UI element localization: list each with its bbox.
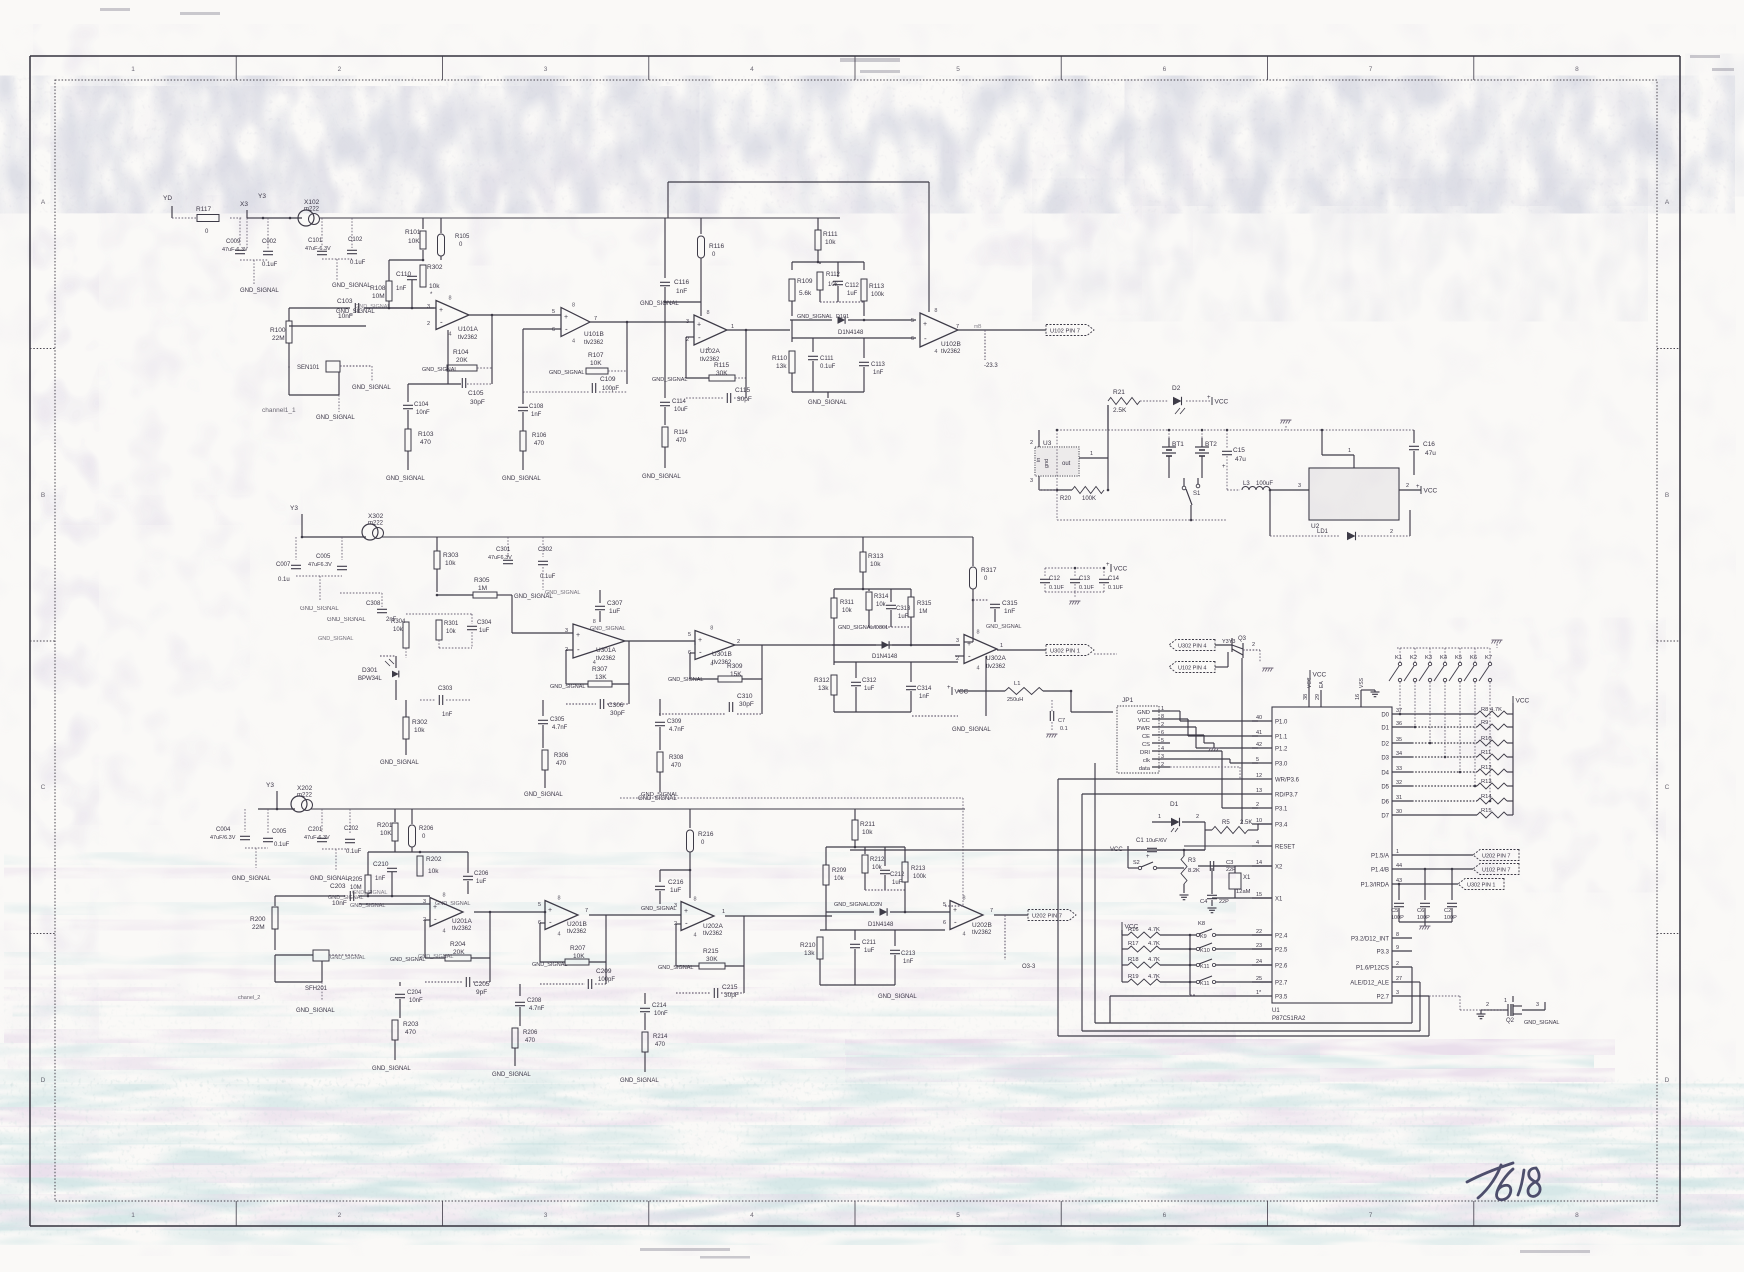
svg-text:30pF: 30pF (610, 710, 625, 717)
svg-text:1uF: 1uF (898, 614, 909, 620)
svg-text:R301: R301 (444, 621, 459, 627)
svg-text:31: 31 (1396, 795, 1402, 801)
svg-text:R309: R309 (727, 663, 743, 670)
svg-text:-: - (440, 318, 443, 327)
svg-text:R106: R106 (532, 433, 547, 439)
svg-text:GND_SIGNAL: GND_SIGNAL (296, 1008, 335, 1014)
svg-text:U201A: U201A (452, 918, 473, 925)
svg-text:RESET: RESET (1275, 845, 1295, 851)
svg-text:7: 7 (1369, 66, 1373, 73)
svg-text:GND_SIGNAL: GND_SIGNAL (310, 876, 349, 882)
svg-text:3: 3 (686, 319, 689, 325)
svg-text:+: + (697, 322, 701, 329)
svg-text:1: 1 (1396, 849, 1399, 855)
svg-text:m222: m222 (304, 207, 320, 213)
svg-text:2: 2 (1161, 722, 1164, 728)
svg-text:10nF: 10nF (338, 313, 353, 320)
svg-text:1nF: 1nF (442, 712, 453, 718)
svg-text:P1.5/A: P1.5/A (1371, 854, 1389, 860)
svg-text:P2.7: P2.7 (1275, 981, 1288, 987)
svg-text:R204: R204 (450, 941, 466, 948)
svg-text:U201B: U201B (567, 921, 587, 928)
svg-text:R212: R212 (870, 857, 885, 863)
svg-text:10k: 10k (876, 602, 887, 608)
svg-text:+: + (1207, 395, 1211, 401)
svg-text:GND_SIGNAL: GND_SIGNAL (372, 1066, 411, 1072)
svg-text:R18: R18 (1128, 957, 1139, 963)
svg-text:S2: S2 (1133, 860, 1140, 866)
svg-text:470: 470 (534, 441, 545, 447)
svg-text:100P: 100P (1391, 915, 1404, 921)
svg-text:L1: L1 (1014, 681, 1020, 687)
svg-text:GND_SIGNAL/D301: GND_SIGNAL/D301 (838, 625, 888, 631)
svg-text:GND_SIGNAL: GND_SIGNAL (240, 288, 279, 294)
svg-text:100P: 100P (1417, 915, 1430, 921)
svg-text:GND_SIGNAL: GND_SIGNAL (327, 617, 366, 623)
svg-text:7: 7 (585, 908, 588, 914)
svg-text:8: 8 (710, 626, 713, 632)
svg-text:3: 3 (1536, 1002, 1539, 1008)
svg-text:C309: C309 (667, 719, 682, 725)
svg-text:R308: R308 (669, 755, 684, 761)
svg-text:-: - (954, 918, 957, 927)
svg-text:R305: R305 (474, 577, 490, 584)
svg-text:C307: C307 (607, 600, 623, 607)
svg-text:25: 25 (1256, 976, 1262, 982)
svg-text:tlv2362: tlv2362 (567, 929, 587, 935)
svg-text:2: 2 (1390, 529, 1393, 535)
svg-text:GND_SIGNAL: GND_SIGNAL (352, 890, 387, 896)
svg-text:m222: m222 (297, 793, 313, 799)
svg-text:K2: K2 (1410, 655, 1417, 661)
svg-text:C201: C201 (308, 827, 323, 833)
svg-text:VCC: VCC (1307, 677, 1313, 688)
svg-text:C210: C210 (373, 861, 389, 868)
svg-text:C315: C315 (1002, 600, 1018, 607)
svg-text:100k: 100k (913, 874, 927, 880)
svg-text:P2.6: P2.6 (1275, 964, 1288, 970)
svg-text:22M: 22M (272, 335, 285, 342)
svg-text:250uH: 250uH (1007, 697, 1023, 703)
svg-text:100K: 100K (1082, 496, 1096, 502)
svg-text:10uF/6V: 10uF/6V (1146, 838, 1167, 844)
svg-text:1*: 1* (1256, 990, 1262, 996)
svg-text:R215: R215 (703, 948, 719, 955)
svg-text:R117: R117 (196, 206, 211, 213)
svg-text:R211: R211 (860, 821, 875, 828)
svg-text:8: 8 (558, 896, 561, 902)
svg-text:1uF: 1uF (476, 879, 487, 885)
svg-text:7: 7 (956, 324, 959, 330)
svg-text:10k: 10k (429, 283, 440, 290)
svg-text:P3.3: P3.3 (1377, 950, 1390, 956)
svg-text:K6: K6 (1470, 655, 1477, 661)
svg-text:gnd: gnd (1044, 459, 1050, 468)
svg-text:D4: D4 (1381, 771, 1389, 777)
svg-text:8: 8 (1161, 714, 1164, 720)
svg-text:R304: R304 (391, 619, 406, 625)
svg-text:BPW34L: BPW34L (358, 676, 382, 682)
svg-text:470: 470 (556, 761, 567, 767)
svg-text:8: 8 (572, 303, 575, 309)
svg-text:0.1UF: 0.1UF (1108, 585, 1124, 591)
svg-text:100P: 100P (1444, 915, 1457, 921)
svg-text:470: 470 (420, 439, 431, 446)
svg-text:U102 PIN 7: U102 PIN 7 (1050, 329, 1080, 335)
svg-text:chanel_2: chanel_2 (238, 995, 260, 1001)
svg-text:P3.0: P3.0 (1275, 762, 1288, 768)
svg-text:-: - (577, 645, 580, 654)
svg-text:10k: 10k (870, 561, 881, 568)
svg-text:+: + (1416, 484, 1420, 490)
svg-text:C312: C312 (862, 678, 877, 684)
svg-text:C16: C16 (1423, 441, 1435, 448)
svg-text:K1: K1 (1395, 655, 1402, 661)
svg-text:4.7nF: 4.7nF (552, 725, 568, 731)
svg-text:C302: C302 (538, 547, 553, 553)
svg-text:R108: R108 (370, 285, 386, 292)
svg-text:U301A: U301A (596, 647, 617, 654)
svg-text:D: D (41, 1077, 46, 1084)
svg-text:1: 1 (1504, 998, 1507, 1004)
svg-text:5: 5 (688, 632, 691, 638)
svg-text:C114: C114 (672, 399, 687, 405)
svg-text:44: 44 (1396, 863, 1402, 869)
svg-text:R19: R19 (1128, 974, 1139, 980)
svg-text:Y3: Y3 (258, 193, 266, 200)
svg-text:41: 41 (1256, 730, 1262, 736)
svg-text:C002: C002 (262, 239, 277, 245)
svg-text:47uF/6.3V: 47uF/6.3V (210, 835, 236, 841)
svg-text:-: - (698, 333, 701, 342)
svg-text:2: 2 (1196, 814, 1199, 820)
svg-text:D7: D7 (1381, 814, 1389, 820)
svg-text:GND_SIGNAL/D2N: GND_SIGNAL/D2N (834, 902, 882, 908)
svg-text:1uF: 1uF (609, 608, 620, 615)
svg-text:R11: R11 (1481, 750, 1491, 756)
svg-text:C112: C112 (845, 283, 860, 289)
svg-text:C5: C5 (1391, 908, 1398, 914)
svg-text:P1.1: P1.1 (1275, 735, 1288, 741)
svg-text:U302 PIN 1: U302 PIN 1 (1050, 649, 1080, 655)
svg-text:C104: C104 (414, 402, 429, 408)
svg-text:K10: K10 (1200, 948, 1210, 954)
svg-text:D2: D2 (1381, 742, 1389, 748)
svg-text:3: 3 (956, 638, 959, 644)
svg-text:1: 1 (731, 324, 734, 330)
svg-text:CS: CS (1142, 742, 1150, 748)
svg-text:R20: R20 (1060, 496, 1072, 502)
svg-text:P3.2/D12_INT: P3.2/D12_INT (1351, 937, 1389, 943)
svg-text:8: 8 (934, 308, 937, 314)
svg-text:R14: R14 (1481, 794, 1492, 800)
svg-text:1nF: 1nF (396, 286, 407, 292)
svg-text:R205: R205 (348, 877, 363, 883)
svg-text:33: 33 (1396, 766, 1402, 772)
svg-text:4.7K: 4.7K (1148, 927, 1160, 933)
svg-text:2: 2 (1252, 642, 1255, 648)
svg-text:C304: C304 (477, 620, 492, 626)
svg-text:GND_SIGNAL: GND_SIGNAL (492, 1072, 531, 1078)
svg-text:1: 1 (1000, 643, 1003, 649)
svg-text:0.1uF: 0.1uF (540, 574, 556, 580)
svg-text:S1: S1 (1193, 491, 1201, 497)
svg-text:5.6k: 5.6k (799, 290, 812, 297)
svg-text:0.1u: 0.1u (278, 577, 290, 583)
svg-text:1: 1 (1090, 451, 1093, 457)
svg-text:1uF: 1uF (864, 948, 875, 954)
svg-text:C105: C105 (468, 390, 484, 397)
svg-text:470: 470 (525, 1038, 536, 1044)
svg-text:D3: D3 (1381, 756, 1389, 762)
svg-text:GND_SIGNAL: GND_SIGNAL (1524, 1020, 1559, 1026)
svg-text:R216: R216 (698, 831, 714, 838)
svg-text:U1: U1 (1272, 1008, 1280, 1014)
svg-text:2: 2 (1396, 961, 1399, 967)
svg-text:R103: R103 (418, 431, 434, 438)
svg-text:3: 3 (427, 304, 430, 310)
svg-text:C: C (1665, 784, 1670, 791)
svg-text:C211: C211 (862, 940, 877, 946)
svg-text:channel1_1: channel1_1 (262, 407, 296, 414)
svg-text:2: 2 (427, 321, 430, 327)
svg-text:0.1uF: 0.1uF (274, 842, 290, 848)
svg-text:0.1uF: 0.1uF (262, 262, 278, 268)
svg-text:+: + (953, 907, 957, 914)
svg-text:R202: R202 (426, 856, 442, 863)
svg-text:-: - (968, 652, 971, 661)
svg-text:15: 15 (1256, 892, 1262, 898)
svg-text:U102A: U102A (700, 348, 721, 355)
svg-text:-: - (434, 915, 437, 924)
svg-text:10k: 10k (445, 560, 456, 567)
svg-text:10M: 10M (372, 293, 385, 300)
svg-text:U101A: U101A (458, 326, 479, 333)
svg-text:36: 36 (1396, 721, 1402, 727)
svg-text:8: 8 (449, 296, 452, 302)
svg-text:GND_SIGNAL: GND_SIGNAL (435, 901, 470, 907)
svg-text:C202: C202 (344, 826, 359, 832)
svg-text:P3.1: P3.1 (1275, 807, 1288, 813)
svg-text:Q3: Q3 (1238, 636, 1247, 642)
svg-text:R5: R5 (1222, 820, 1230, 826)
svg-text:+: + (564, 314, 568, 321)
svg-text:C009: C009 (226, 239, 241, 245)
svg-text:R115: R115 (714, 362, 729, 369)
svg-text:out: out (1062, 461, 1071, 467)
svg-text:C102: C102 (348, 237, 363, 243)
svg-text:R15: R15 (1481, 808, 1492, 814)
svg-text:47u: 47u (1425, 450, 1436, 457)
svg-text:U302 PIN 4: U302 PIN 4 (1178, 644, 1206, 650)
svg-text:29: 29 (1315, 694, 1321, 700)
svg-text:GND_SIGNAL: GND_SIGNAL (524, 792, 563, 798)
svg-text:6: 6 (943, 920, 946, 926)
svg-text:10k: 10k (842, 608, 853, 614)
svg-text:100k: 100k (871, 292, 885, 298)
svg-text:22P: 22P (1219, 899, 1229, 905)
svg-text:R109: R109 (797, 278, 813, 285)
svg-text:K8: K8 (1198, 921, 1205, 927)
svg-text:8: 8 (1396, 932, 1399, 938)
svg-text:3: 3 (544, 66, 548, 73)
svg-text:30K: 30K (716, 370, 728, 377)
svg-text:K9: K9 (1200, 934, 1207, 940)
svg-text:5: 5 (1161, 738, 1164, 744)
svg-text:8: 8 (1575, 66, 1579, 73)
svg-text:2: 2 (956, 656, 959, 662)
svg-text:GND_SIGNAL: GND_SIGNAL (549, 370, 584, 376)
svg-text:U302A: U302A (986, 655, 1007, 662)
svg-text:0.1: 0.1 (1060, 726, 1068, 732)
svg-text:1nF: 1nF (873, 370, 884, 376)
svg-text:10: 10 (1256, 818, 1262, 824)
svg-text:+: + (698, 637, 702, 644)
svg-text:C004: C004 (216, 827, 231, 833)
svg-text:C313: C313 (896, 606, 911, 612)
svg-text:GND_SIGNAL: GND_SIGNAL (641, 906, 676, 912)
svg-text:C7: C7 (1058, 718, 1065, 724)
svg-text:R105: R105 (455, 234, 470, 240)
svg-text:VCC: VCC (1114, 566, 1128, 573)
svg-text:GND_SIGNAL: GND_SIGNAL (232, 876, 271, 882)
svg-text:470: 470 (676, 438, 687, 444)
svg-text:R113: R113 (869, 283, 884, 290)
svg-text:+: + (439, 307, 443, 314)
svg-text:SEN101: SEN101 (297, 365, 320, 371)
svg-text:U301B: U301B (712, 651, 732, 658)
svg-text:X302: X302 (368, 513, 384, 520)
svg-text:2: 2 (737, 639, 740, 645)
svg-text:+: + (923, 321, 927, 328)
svg-text:R3: R3 (1188, 858, 1196, 864)
svg-text:1nF: 1nF (919, 694, 930, 700)
svg-text:5: 5 (911, 318, 914, 324)
svg-text:SFH201: SFH201 (305, 986, 328, 992)
svg-text:12aM: 12aM (1236, 889, 1251, 895)
svg-text:470: 470 (655, 1042, 666, 1048)
svg-text:2: 2 (1161, 762, 1164, 768)
svg-text:+: + (1106, 562, 1110, 568)
svg-text:4: 4 (694, 933, 697, 939)
svg-text:13k: 13k (804, 950, 815, 957)
svg-text:U302 PIN 1: U302 PIN 1 (1467, 883, 1495, 889)
svg-text:Y3: Y3 (290, 505, 298, 512)
svg-text:4: 4 (572, 339, 575, 345)
svg-text:R314: R314 (874, 594, 889, 600)
svg-text:-: - (565, 325, 568, 334)
svg-text:7: 7 (1369, 1212, 1373, 1219)
svg-text:470: 470 (405, 1029, 416, 1036)
svg-text:C15: C15 (1233, 447, 1245, 454)
svg-text:3: 3 (674, 903, 677, 909)
svg-text:D2: D2 (1172, 385, 1181, 392)
svg-text:6: 6 (1163, 66, 1167, 73)
svg-text:A: A (1665, 199, 1670, 206)
svg-text:16: 16 (1355, 694, 1361, 700)
svg-text:1nF: 1nF (375, 876, 386, 882)
svg-text:R13: R13 (1481, 779, 1492, 785)
svg-text:P1.2: P1.2 (1275, 747, 1288, 753)
svg-text:K5: K5 (1455, 655, 1462, 661)
svg-text:P2.5: P2.5 (1275, 948, 1288, 954)
svg-text:1: 1 (722, 909, 725, 915)
svg-text:GND_SIGNAL: GND_SIGNAL (545, 590, 580, 596)
svg-text:10k: 10k (393, 627, 404, 633)
svg-text:R214: R214 (653, 1034, 668, 1040)
svg-text:6: 6 (1163, 1212, 1167, 1219)
svg-text:VCC: VCC (955, 689, 969, 696)
svg-text:8: 8 (1575, 1212, 1579, 1219)
svg-text:tlv2362: tlv2362 (941, 349, 961, 355)
svg-text:K4: K4 (1440, 655, 1448, 661)
svg-text:24: 24 (1256, 959, 1262, 965)
svg-text:C110: C110 (396, 271, 411, 278)
svg-text:R10: R10 (1481, 736, 1492, 742)
svg-text:+: + (947, 685, 951, 691)
svg-text:clk: clk (1143, 758, 1150, 764)
svg-text:10k: 10k (825, 239, 836, 246)
svg-text:R200: R200 (250, 916, 266, 923)
svg-text:4: 4 (1256, 840, 1259, 846)
svg-text:30pF: 30pF (737, 396, 752, 403)
svg-text:C209: C209 (596, 968, 612, 975)
svg-text:5: 5 (956, 66, 960, 73)
svg-text:100pF: 100pF (598, 977, 615, 983)
svg-text:GND_SIGNAL: GND_SIGNAL (878, 994, 917, 1000)
svg-text:3: 3 (1161, 754, 1164, 760)
svg-text:X1: X1 (1275, 897, 1283, 903)
svg-text:35: 35 (1396, 737, 1402, 743)
svg-text:Y3Y3: Y3Y3 (1222, 639, 1235, 645)
svg-text:32: 32 (1396, 780, 1402, 786)
svg-text:U102B: U102B (941, 341, 961, 348)
svg-text:R110: R110 (772, 355, 787, 362)
svg-text:P3.4: P3.4 (1275, 823, 1288, 829)
svg-text:R302: R302 (412, 719, 428, 726)
svg-text:D0: D0 (1381, 713, 1389, 719)
svg-text:1: 1 (1348, 448, 1351, 454)
svg-text:GND_SIGNAL: GND_SIGNAL (300, 606, 339, 612)
svg-text:0.1uF: 0.1uF (350, 260, 366, 266)
svg-text:12: 12 (1256, 773, 1262, 779)
svg-text:C306: C306 (608, 702, 624, 709)
svg-text:4.7K: 4.7K (1148, 941, 1160, 947)
svg-text:WR/P3.6: WR/P3.6 (1275, 778, 1300, 784)
svg-text:tlv2362: tlv2362 (596, 656, 616, 662)
svg-text:GND_SIGNAL: GND_SIGNAL (380, 760, 419, 766)
svg-text:4: 4 (934, 349, 937, 355)
svg-text:4.7nF: 4.7nF (669, 727, 685, 733)
svg-text:R302: R302 (427, 264, 443, 271)
svg-text:C216: C216 (668, 879, 684, 886)
svg-text:C215: C215 (722, 984, 738, 991)
svg-text:GND_SIGNAL: GND_SIGNAL (797, 314, 832, 320)
svg-text:13: 13 (1256, 788, 1262, 794)
svg-text:8: 8 (977, 630, 980, 636)
svg-text:C206: C206 (474, 871, 489, 877)
svg-text:VSS: VSS (1359, 677, 1365, 688)
svg-text:D1N4148: D1N4148 (838, 330, 864, 336)
svg-text:+: + (684, 908, 688, 915)
svg-text:VCC: VCC (1138, 718, 1150, 724)
svg-text:R206: R206 (419, 826, 434, 832)
svg-text:4: 4 (750, 1212, 754, 1219)
svg-text:GND_SIGNAL: GND_SIGNAL (620, 1078, 659, 1084)
svg-text:C204: C204 (407, 990, 422, 996)
svg-text:PWR: PWR (1136, 726, 1150, 732)
svg-text:O3-3: O3-3 (1022, 964, 1036, 970)
